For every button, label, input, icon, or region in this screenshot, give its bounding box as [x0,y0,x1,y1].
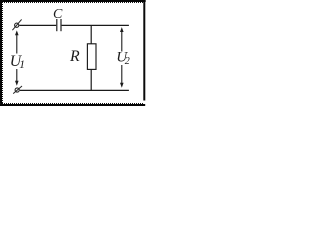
wire: bottom [20,89,129,91]
svg-text:R: R [69,48,80,65]
wire: top left segment [19,24,56,26]
voltage arrow U1 lower segment with down head [15,69,19,86]
svg-text:1: 1 [19,59,25,71]
frame border bottom bar [0,104,145,106]
label U2 [116,49,130,68]
wire: resistor top stub [90,25,92,43]
frame border right line [143,2,145,101]
frame border left teeth [2,0,4,105]
background [0,0,148,106]
frame border bottom teeth [0,103,144,105]
svg-text:C: C [53,7,63,22]
terminal T1 top-left [12,19,21,30]
frame border top bar [0,0,146,2]
wire: top right segment [62,24,129,26]
voltage arrow U2 lower segment with down head [120,65,124,88]
wire: resistor bottom stub [90,69,92,90]
frame border left bar [0,0,2,106]
label U1 [10,53,25,71]
terminal T2 bottom-left [13,86,22,94]
voltage arrow U1 upper segment with up head [15,30,19,53]
frame border top teeth [0,2,145,4]
capacitor C plates [57,19,61,31]
resistor R body [87,44,96,70]
svg-text:2: 2 [125,56,130,67]
voltage arrow U2 upper segment with up head [120,27,124,51]
